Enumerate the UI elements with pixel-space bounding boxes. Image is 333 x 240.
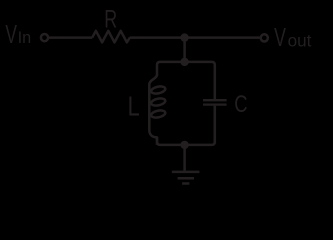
inductor L loop 3 bbox=[150, 109, 165, 118]
svg-text:In: In bbox=[18, 29, 32, 47]
node junction dot on main wire bbox=[182, 35, 188, 41]
terminal Vin bbox=[41, 34, 48, 41]
terminal Vout bbox=[261, 34, 268, 41]
capacitor C bottom plate bbox=[203, 103, 227, 105]
svg-text:L: L bbox=[128, 90, 140, 121]
wire junction down to tank top rail bbox=[183, 38, 186, 62]
ground bar 2 bbox=[178, 177, 194, 180]
resistor R bbox=[92, 31, 130, 43]
wire bottom rail to ground bbox=[183, 145, 186, 172]
wire resistor to Vout terminal bbox=[130, 36, 260, 39]
wire capacitor bottom lead bbox=[214, 106, 217, 144]
svg-text:C: C bbox=[234, 91, 247, 118]
capacitor C top plate bbox=[203, 99, 227, 101]
ground bar 1 bbox=[172, 171, 200, 174]
svg-text:R: R bbox=[104, 5, 117, 33]
svg-text:V: V bbox=[5, 19, 17, 49]
inductor L body wire bbox=[149, 75, 157, 145]
wire Vin terminal to resistor bbox=[48, 36, 92, 39]
ground bar 3 bbox=[182, 182, 189, 185]
node junction dot on bottom rail bbox=[182, 142, 188, 148]
inductor L loop 2 bbox=[150, 97, 165, 106]
svg-text:out: out bbox=[288, 31, 312, 50]
inductor L loop 1 bbox=[150, 85, 165, 94]
svg-text:V: V bbox=[274, 22, 286, 52]
wire tank bottom rail with corners bbox=[157, 106, 215, 145]
wire tank top rail with corners bbox=[157, 62, 215, 99]
node junction dot on top rail bbox=[182, 59, 188, 65]
